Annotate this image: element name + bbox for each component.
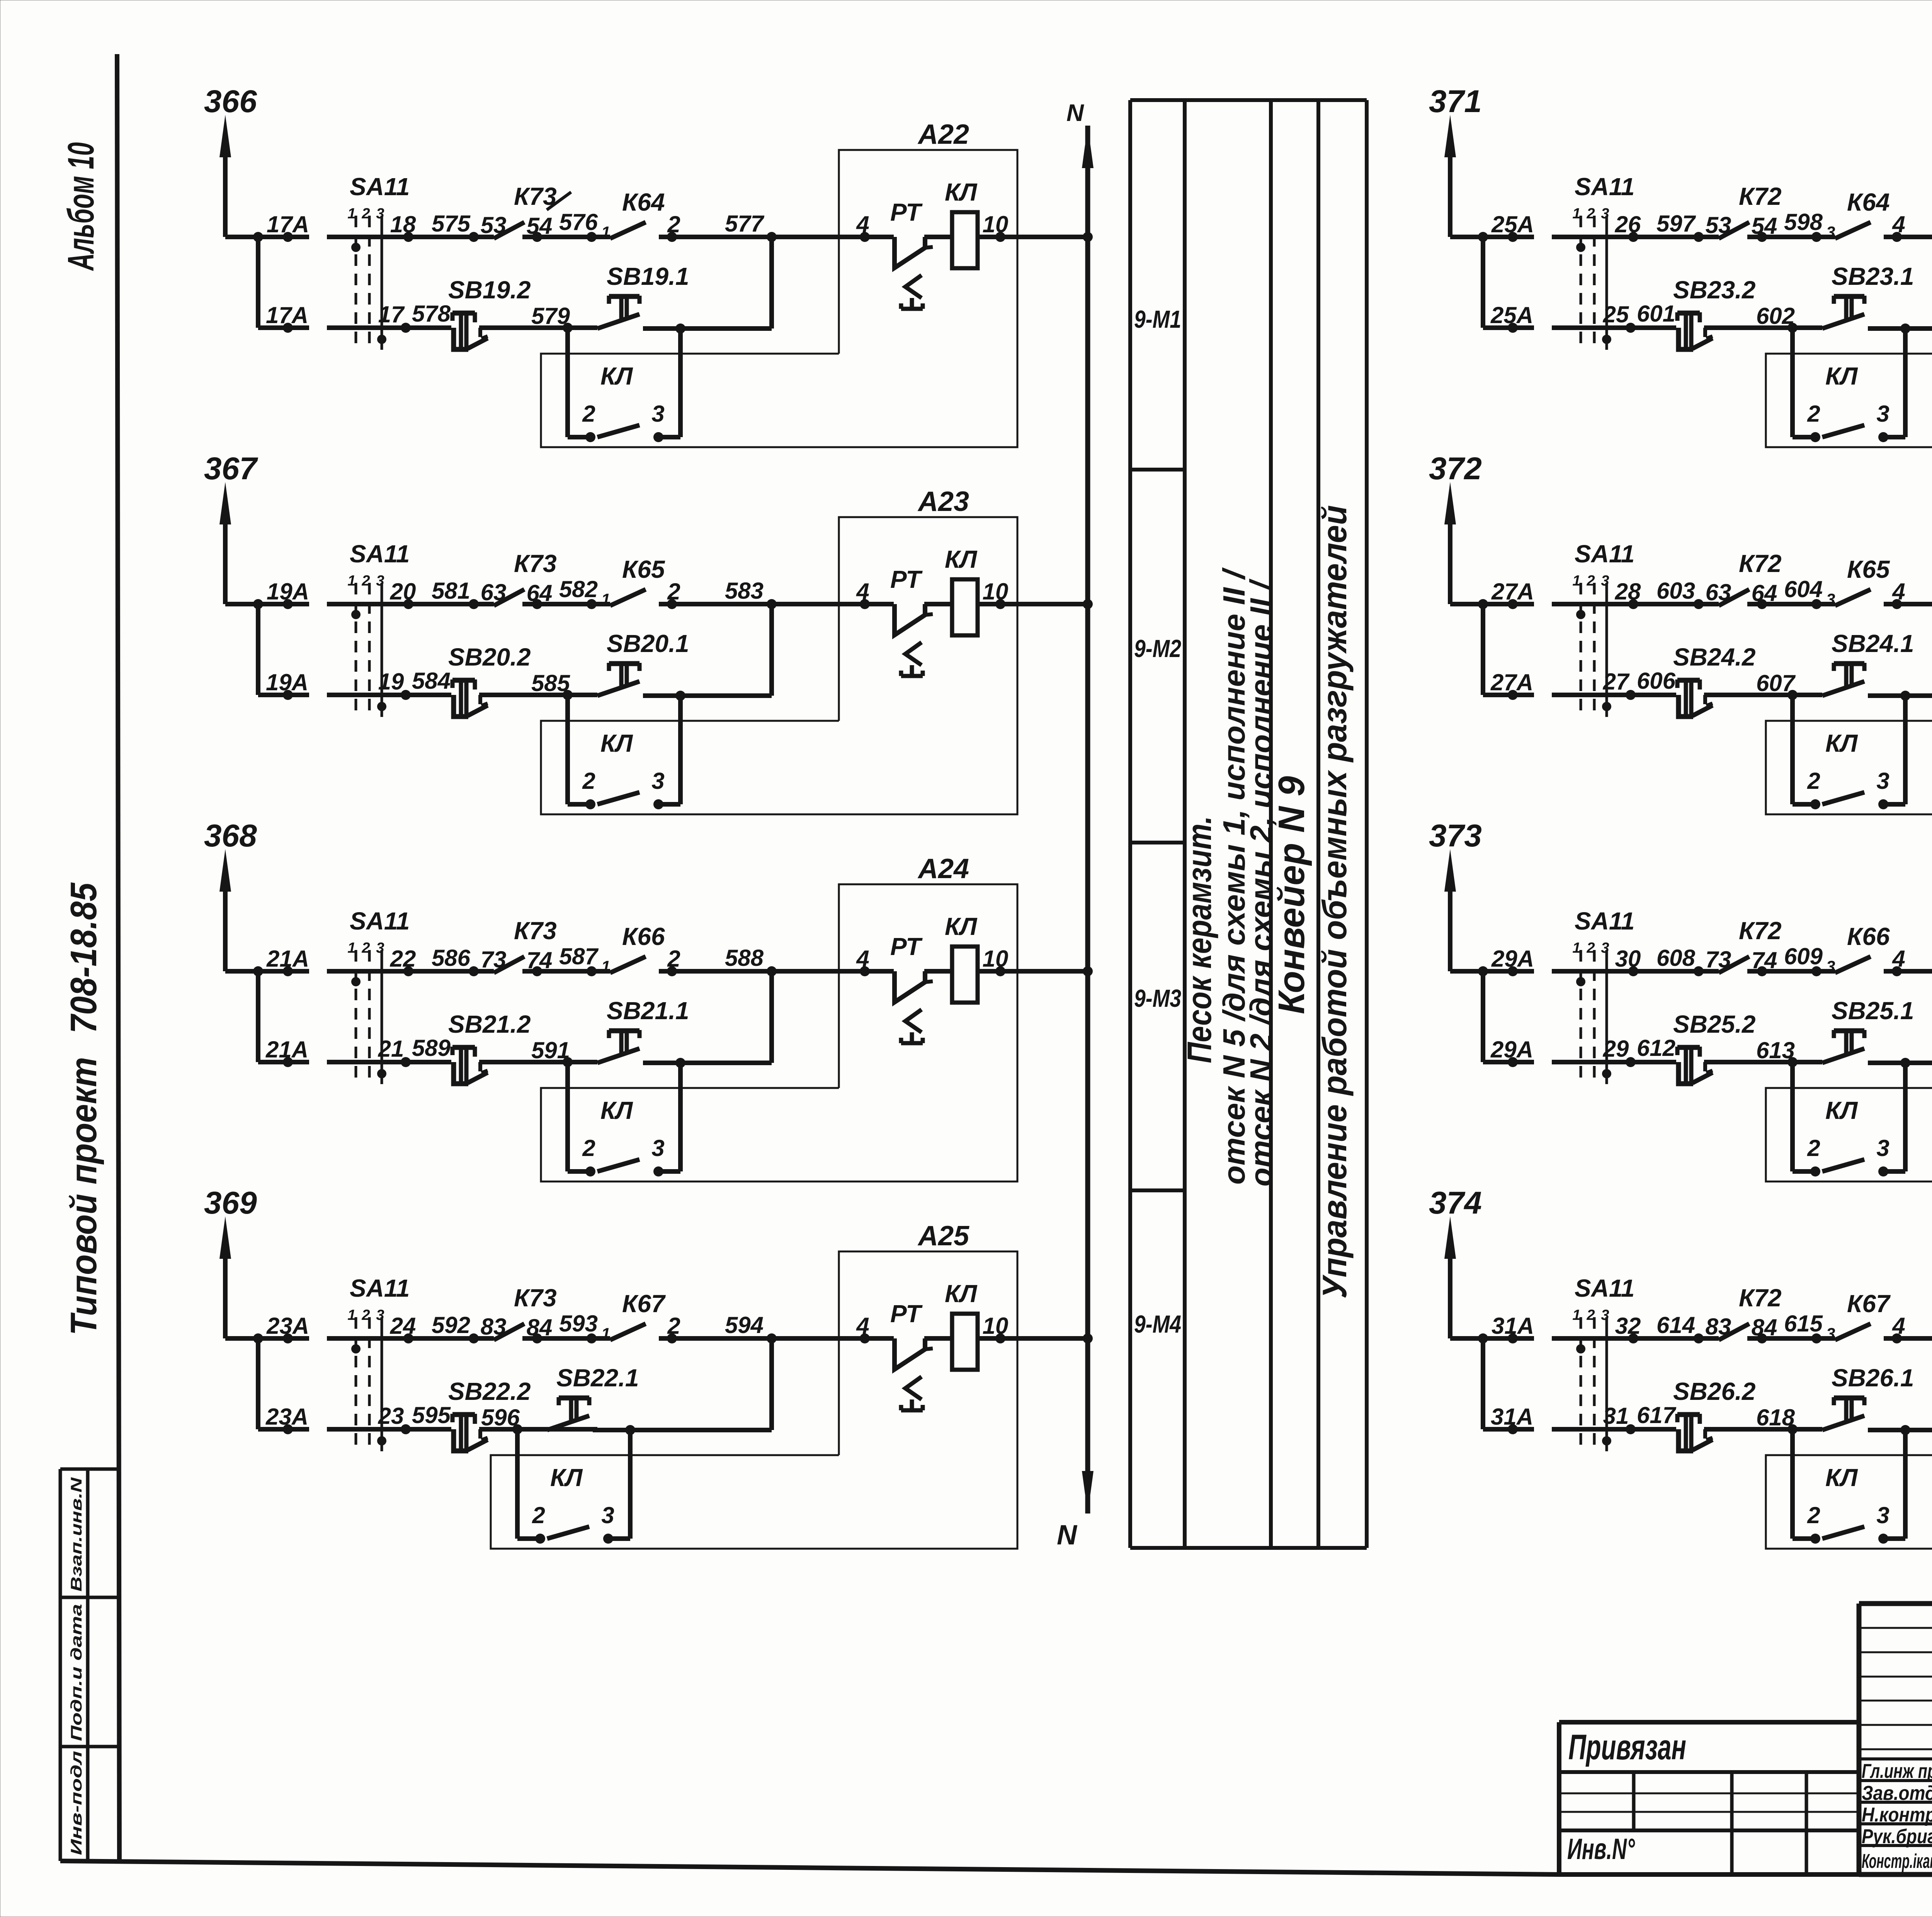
svg-text:84: 84 <box>1752 1314 1777 1340</box>
svg-text:582: 582 <box>559 576 598 602</box>
svg-text:SA11: SA11 <box>350 540 410 568</box>
svg-text:4: 4 <box>1892 1313 1905 1339</box>
svg-text:N: N <box>1057 1520 1078 1551</box>
svg-text:17А: 17А <box>267 211 309 237</box>
svg-text:1: 1 <box>1572 573 1580 589</box>
svg-text:19А: 19А <box>267 579 309 604</box>
svg-text:64: 64 <box>1752 580 1777 606</box>
svg-text:3: 3 <box>1601 206 1609 222</box>
svg-text:SB19.1: SB19.1 <box>607 262 689 290</box>
svg-text:SA11: SA11 <box>1575 540 1634 568</box>
svg-text:25А: 25А <box>1491 211 1534 237</box>
svg-text:2: 2 <box>1586 1307 1595 1323</box>
svg-text:588: 588 <box>725 945 764 971</box>
svg-text:2: 2 <box>361 206 370 222</box>
svg-text:4: 4 <box>856 1313 869 1339</box>
svg-text:SB21.1: SB21.1 <box>607 997 689 1025</box>
svg-text:Инв.N°: Инв.N° <box>1567 1833 1635 1866</box>
svg-text:SB25.1: SB25.1 <box>1832 997 1914 1025</box>
svg-text:29А: 29А <box>1491 946 1534 972</box>
svg-text:598: 598 <box>1784 209 1823 235</box>
svg-text:3: 3 <box>1601 1307 1609 1323</box>
svg-text:3: 3 <box>1826 957 1835 976</box>
svg-text:21: 21 <box>378 1036 404 1062</box>
svg-text:К65: К65 <box>1847 555 1890 583</box>
svg-text:Констр.iкат: Констр.iкат <box>1862 1850 1932 1873</box>
svg-text:19: 19 <box>378 669 404 695</box>
svg-text:366: 366 <box>204 84 257 119</box>
svg-text:3: 3 <box>376 1307 384 1323</box>
svg-text:1: 1 <box>601 1325 610 1343</box>
svg-text:SB23.1: SB23.1 <box>1832 262 1914 290</box>
svg-text:3: 3 <box>651 401 664 427</box>
svg-text:17А: 17А <box>266 302 308 328</box>
svg-text:4: 4 <box>856 579 869 604</box>
svg-text:КЛ: КЛ <box>600 1096 633 1124</box>
svg-text:1: 1 <box>601 223 610 241</box>
svg-text:К72: К72 <box>1739 1284 1782 1312</box>
svg-text:К67: К67 <box>1847 1290 1891 1318</box>
svg-text:83: 83 <box>481 1314 507 1340</box>
svg-text:1: 1 <box>601 957 610 976</box>
svg-text:368: 368 <box>204 818 257 853</box>
svg-text:31: 31 <box>1603 1403 1629 1429</box>
svg-text:2: 2 <box>532 1502 545 1528</box>
svg-text:4: 4 <box>1892 579 1905 604</box>
svg-text:21А: 21А <box>265 1037 308 1062</box>
svg-text:КЛ: КЛ <box>945 545 978 573</box>
svg-text:53: 53 <box>1706 212 1731 238</box>
svg-text:КЛ: КЛ <box>600 362 633 390</box>
svg-text:10: 10 <box>983 579 1009 604</box>
svg-text:22: 22 <box>390 946 416 972</box>
svg-text:3: 3 <box>376 573 384 589</box>
svg-text:18: 18 <box>390 211 416 237</box>
svg-text:373: 373 <box>1429 818 1482 853</box>
svg-text:3: 3 <box>1826 590 1835 608</box>
svg-text:4: 4 <box>1892 211 1905 237</box>
svg-text:27: 27 <box>1603 669 1630 695</box>
svg-text:579: 579 <box>531 303 570 329</box>
svg-text:КЛ: КЛ <box>1825 1464 1858 1491</box>
svg-text:SB24.1: SB24.1 <box>1832 630 1914 657</box>
svg-text:1: 1 <box>347 573 355 589</box>
svg-text:2: 2 <box>582 1135 595 1161</box>
svg-text:2: 2 <box>1807 401 1820 427</box>
svg-text:А24: А24 <box>917 853 969 884</box>
svg-text:1: 1 <box>601 590 610 608</box>
svg-text:83: 83 <box>1706 1314 1731 1340</box>
svg-text:SA11: SA11 <box>1575 1274 1634 1302</box>
svg-text:SA11: SA11 <box>1575 173 1634 201</box>
svg-text:SB24.2: SB24.2 <box>1673 643 1755 671</box>
svg-text:КЛ: КЛ <box>1825 1096 1858 1124</box>
svg-text:2: 2 <box>1586 940 1595 956</box>
svg-text:SA11: SA11 <box>350 907 410 935</box>
svg-text:1: 1 <box>347 1307 355 1323</box>
svg-text:SB22.2: SB22.2 <box>448 1377 531 1405</box>
svg-text:3: 3 <box>1601 940 1609 956</box>
svg-text:84: 84 <box>527 1314 553 1340</box>
svg-text:3: 3 <box>1876 1135 1889 1161</box>
svg-text:Рук.бриг.: Рук.бриг. <box>1862 1825 1932 1848</box>
svg-text:SB20.2: SB20.2 <box>448 643 531 671</box>
svg-text:63: 63 <box>481 579 507 605</box>
svg-text:30: 30 <box>1615 946 1641 972</box>
svg-text:3: 3 <box>651 1135 664 1161</box>
svg-text:589: 589 <box>412 1035 451 1061</box>
svg-text:23: 23 <box>378 1403 404 1429</box>
svg-text:9-М4: 9-М4 <box>1134 1310 1181 1338</box>
svg-text:2: 2 <box>361 940 370 956</box>
svg-text:609: 609 <box>1784 943 1823 969</box>
svg-text:К64: К64 <box>622 188 665 216</box>
svg-text:SB26.1: SB26.1 <box>1832 1364 1914 1392</box>
svg-text:3: 3 <box>601 1502 614 1528</box>
svg-text:585: 585 <box>531 670 571 696</box>
svg-text:613: 613 <box>1756 1037 1795 1063</box>
svg-text:25А: 25А <box>1490 302 1533 328</box>
svg-text:К65: К65 <box>622 555 665 583</box>
svg-text:КЛ: КЛ <box>600 729 633 757</box>
svg-text:4: 4 <box>1892 946 1905 972</box>
svg-text:369: 369 <box>204 1185 257 1221</box>
svg-text:К73: К73 <box>514 917 557 945</box>
svg-text:К73: К73 <box>514 550 557 577</box>
svg-text:Песок керамзит.: Песок керамзит. <box>1180 816 1218 1063</box>
svg-text:73: 73 <box>481 947 507 972</box>
svg-text:54: 54 <box>1752 213 1777 239</box>
svg-text:К72: К72 <box>1739 182 1782 210</box>
svg-text:74: 74 <box>1752 947 1777 973</box>
svg-text:587: 587 <box>559 943 599 969</box>
svg-text:2: 2 <box>1807 768 1820 794</box>
svg-text:Типовой проект: Типовой проект <box>63 1057 104 1335</box>
svg-text:КЛ: КЛ <box>945 178 978 206</box>
svg-text:64: 64 <box>527 580 553 606</box>
svg-text:Конвейер N 9: Конвейер N 9 <box>1271 776 1312 1014</box>
svg-text:25: 25 <box>1603 301 1629 327</box>
svg-text:Подп.и дата: Подп.и дата <box>68 1604 85 1741</box>
svg-text:Привязан: Привязан <box>1568 1728 1686 1767</box>
svg-text:17: 17 <box>378 301 405 327</box>
svg-text:2: 2 <box>1586 206 1595 222</box>
svg-text:3: 3 <box>651 768 664 794</box>
svg-text:Гл.инж пр.: Гл.инж пр. <box>1862 1760 1932 1783</box>
svg-text:607: 607 <box>1756 670 1796 696</box>
svg-text:592: 592 <box>432 1312 470 1338</box>
svg-text:1: 1 <box>1572 940 1580 956</box>
svg-text:618: 618 <box>1756 1405 1795 1430</box>
svg-text:24: 24 <box>390 1313 416 1339</box>
svg-text:3: 3 <box>376 940 384 956</box>
svg-text:10: 10 <box>983 1313 1009 1339</box>
svg-text:591: 591 <box>531 1037 570 1063</box>
svg-text:2: 2 <box>667 211 680 237</box>
svg-text:3: 3 <box>1826 223 1835 241</box>
svg-text:SA11: SA11 <box>1575 907 1634 935</box>
svg-text:4: 4 <box>856 946 869 972</box>
svg-text:SB25.2: SB25.2 <box>1673 1010 1755 1038</box>
svg-text:602: 602 <box>1756 303 1795 329</box>
svg-text:23А: 23А <box>266 1313 309 1339</box>
svg-text:583: 583 <box>725 578 764 604</box>
svg-text:708-18.85: 708-18.85 <box>63 882 104 1033</box>
svg-text:584: 584 <box>412 668 451 694</box>
svg-text:SB20.1: SB20.1 <box>607 630 689 657</box>
svg-text:54: 54 <box>527 213 553 239</box>
svg-text:Н.контр.: Н.контр. <box>1862 1804 1932 1826</box>
svg-text:РТ: РТ <box>890 933 923 960</box>
svg-text:594: 594 <box>725 1312 764 1338</box>
svg-text:612: 612 <box>1637 1035 1675 1061</box>
svg-text:SA11: SA11 <box>350 1274 410 1302</box>
svg-text:617: 617 <box>1637 1402 1677 1428</box>
svg-text:SB22.1: SB22.1 <box>556 1364 639 1392</box>
svg-text:2: 2 <box>582 768 595 794</box>
svg-text:28: 28 <box>1615 579 1641 604</box>
svg-text:КЛ: КЛ <box>550 1464 583 1491</box>
svg-text:595: 595 <box>412 1402 451 1428</box>
svg-text:3: 3 <box>1876 401 1889 427</box>
svg-text:577: 577 <box>725 211 765 237</box>
svg-text:21А: 21А <box>266 946 309 972</box>
svg-text:3: 3 <box>1826 1325 1835 1343</box>
svg-text:9-М1: 9-М1 <box>1134 305 1181 333</box>
svg-text:19А: 19А <box>266 669 308 695</box>
svg-text:4: 4 <box>856 211 869 237</box>
svg-text:РТ: РТ <box>890 198 923 226</box>
svg-text:2: 2 <box>1807 1135 1820 1161</box>
svg-text:27А: 27А <box>1490 669 1533 695</box>
svg-text:2: 2 <box>667 1313 680 1339</box>
svg-text:10: 10 <box>983 946 1009 972</box>
svg-text:К66: К66 <box>1847 923 1890 950</box>
svg-text:53: 53 <box>481 212 507 238</box>
svg-text:РТ: РТ <box>890 1300 923 1328</box>
svg-text:2: 2 <box>361 1307 370 1323</box>
svg-text:608: 608 <box>1656 945 1696 971</box>
svg-text:63: 63 <box>1706 579 1731 605</box>
svg-text:2: 2 <box>667 946 680 972</box>
svg-text:К72: К72 <box>1739 917 1782 945</box>
svg-text:74: 74 <box>527 947 553 973</box>
svg-text:29: 29 <box>1603 1036 1629 1062</box>
svg-text:3: 3 <box>1876 1502 1889 1528</box>
svg-text:576: 576 <box>559 209 598 235</box>
svg-text:SA11: SA11 <box>350 173 410 201</box>
svg-text:374: 374 <box>1429 1185 1482 1221</box>
svg-text:586: 586 <box>432 945 471 971</box>
svg-text:РТ: РТ <box>890 565 923 593</box>
svg-text:9-М3: 9-М3 <box>1134 984 1181 1012</box>
svg-text:2: 2 <box>667 579 680 604</box>
svg-text:1: 1 <box>347 940 355 956</box>
svg-text:615: 615 <box>1784 1311 1823 1336</box>
svg-text:23А: 23А <box>265 1404 308 1430</box>
svg-text:3: 3 <box>376 206 384 222</box>
svg-text:А22: А22 <box>917 119 969 150</box>
svg-text:SB19.2: SB19.2 <box>448 276 531 304</box>
svg-text:Альбом 10: Альбом 10 <box>60 142 102 271</box>
svg-text:606: 606 <box>1637 668 1676 694</box>
svg-text:К66: К66 <box>622 923 665 950</box>
svg-text:Зав.отд.: Зав.отд. <box>1862 1782 1932 1805</box>
svg-text:2: 2 <box>1807 1502 1820 1528</box>
svg-text:3: 3 <box>1601 573 1609 589</box>
svg-text:SB23.2: SB23.2 <box>1673 276 1755 304</box>
svg-text:N: N <box>1066 100 1084 126</box>
svg-text:SB26.2: SB26.2 <box>1673 1377 1755 1405</box>
svg-text:1: 1 <box>1572 206 1580 222</box>
svg-text:К72: К72 <box>1739 550 1782 577</box>
svg-text:73: 73 <box>1706 947 1731 972</box>
svg-text:2: 2 <box>582 401 595 427</box>
svg-text:А23: А23 <box>917 486 969 517</box>
svg-text:КЛ: КЛ <box>945 913 978 940</box>
svg-text:29А: 29А <box>1490 1037 1533 1062</box>
svg-text:371: 371 <box>1429 84 1482 119</box>
svg-text:597: 597 <box>1656 211 1696 237</box>
svg-text:596: 596 <box>481 1405 520 1430</box>
svg-text:614: 614 <box>1656 1312 1695 1338</box>
svg-text:2: 2 <box>1586 573 1595 589</box>
svg-text:31А: 31А <box>1491 1404 1533 1430</box>
svg-text:10: 10 <box>983 211 1009 237</box>
svg-text:372: 372 <box>1429 451 1482 486</box>
svg-text:Взап.инв.N: Взап.инв.N <box>68 1477 85 1592</box>
svg-text:32: 32 <box>1615 1313 1641 1339</box>
svg-text:604: 604 <box>1784 576 1823 602</box>
svg-text:К73: К73 <box>514 1284 557 1312</box>
svg-text:1: 1 <box>1572 1307 1580 1323</box>
svg-text:31А: 31А <box>1492 1313 1534 1339</box>
svg-text:КЛ: КЛ <box>1825 362 1858 390</box>
svg-text:КЛ: КЛ <box>1825 729 1858 757</box>
svg-text:601: 601 <box>1637 301 1675 327</box>
svg-text:581: 581 <box>432 578 470 604</box>
svg-text:367: 367 <box>204 451 258 486</box>
svg-text:27А: 27А <box>1491 579 1534 604</box>
svg-text:20: 20 <box>390 579 416 604</box>
svg-text:603: 603 <box>1656 578 1695 604</box>
svg-text:SB21.2: SB21.2 <box>448 1010 531 1038</box>
svg-text:Инв-подл: Инв-подл <box>68 1751 85 1855</box>
svg-text:575: 575 <box>432 211 471 237</box>
svg-text:К67: К67 <box>622 1290 666 1318</box>
svg-text:3: 3 <box>1876 768 1889 794</box>
svg-text:593: 593 <box>559 1311 598 1336</box>
svg-text:26: 26 <box>1615 211 1641 237</box>
svg-text:9-М2: 9-М2 <box>1134 635 1181 662</box>
svg-text:А25: А25 <box>917 1221 969 1251</box>
svg-text:2: 2 <box>361 573 370 589</box>
svg-text:Управление работой объемных: Управление работой объемных разгружателе… <box>1315 505 1354 1299</box>
svg-text:КЛ: КЛ <box>945 1280 978 1308</box>
svg-text:К64: К64 <box>1847 188 1890 216</box>
svg-text:1: 1 <box>347 206 355 222</box>
svg-text:578: 578 <box>412 301 451 327</box>
